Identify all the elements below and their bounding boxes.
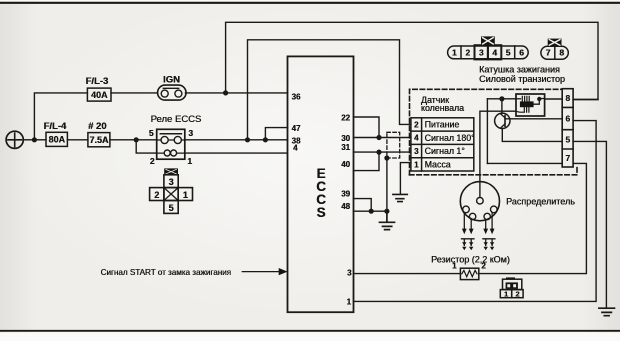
wire battery to 80A: [34, 139, 46, 141]
wire bus2 to sensor power pin 2: [248, 40, 411, 140]
svg-text:2: 2: [465, 48, 470, 58]
svg-text:Реле ECCS: Реле ECCS: [151, 114, 202, 125]
svg-text:3: 3: [188, 128, 193, 138]
connector C2 bottom: [500, 277, 523, 297]
wire ECCS pin 30 to sensor pin 4: [354, 137, 411, 139]
ECCS pin labels right: [341, 113, 352, 306]
svg-text:Питание: Питание: [425, 120, 460, 130]
svg-text:31: 31: [341, 143, 350, 152]
connector pill1 black tab: [481, 36, 495, 45]
svg-text:6: 6: [565, 114, 570, 124]
connector pill2 black tab: [548, 39, 562, 47]
svg-text:4: 4: [492, 48, 497, 58]
svg-text:36: 36: [292, 92, 301, 101]
svg-text:47: 47: [292, 124, 301, 133]
node coil right: [537, 97, 541, 101]
wire distributor outputs with arrows: [464, 213, 492, 229]
wire transistor emitter to pin 5: [502, 129, 562, 142]
svg-text:1: 1: [452, 262, 457, 271]
svg-text:7.5A: 7.5A: [89, 135, 109, 145]
svg-text:S: S: [316, 205, 325, 220]
wire coil right to pin 8: [545, 98, 563, 100]
svg-text:Катушка зажигания: Катушка зажигания: [479, 64, 560, 74]
svg-text:5: 5: [168, 203, 173, 213]
svg-text:1: 1: [187, 156, 192, 166]
svg-text:4: 4: [414, 134, 419, 143]
ground G1: [393, 194, 407, 201]
node ground junction: [384, 209, 389, 214]
ground G2: [380, 211, 395, 229]
svg-text:5: 5: [565, 134, 570, 144]
ignition switch IGN: [158, 85, 186, 100]
wire relay pin 1 to ECCS pin 4: [185, 152, 288, 154]
svg-text:Силовой транзистор: Силовой транзистор: [479, 74, 565, 84]
wire 80A to 7.5A: [67, 139, 88, 141]
svg-text:40: 40: [341, 160, 350, 169]
wire pin 7 left: [487, 162, 562, 164]
wire to relay coil pin 2: [136, 140, 157, 153]
connector strip pin labels: [565, 93, 570, 163]
wire resistor to ECCS pin 3: [354, 273, 461, 275]
svg-text:Сигнал 180°: Сигнал 180°: [425, 133, 475, 143]
svg-text:5: 5: [149, 128, 154, 138]
distributor: [460, 182, 499, 221]
fuse #20 7.5A: [88, 133, 110, 147]
wire bus1 to coil pin 8: [226, 22, 598, 99]
svg-text:1: 1: [183, 190, 188, 200]
svg-text:F/L-4: F/L-4: [44, 121, 67, 132]
node pin39 junction: [369, 209, 374, 214]
wire coil secondary to distributor: [480, 111, 516, 197]
wire shield to ground: [386, 158, 388, 211]
svg-text:1: 1: [452, 48, 457, 58]
wire 40A to IGN: [111, 92, 157, 94]
svg-text:2: 2: [481, 261, 486, 270]
node pin30 junction: [376, 135, 381, 140]
resistor R1 2.2 kOhm: [460, 268, 478, 279]
node pin47 tap: [263, 137, 268, 142]
ignition coil T1: [516, 94, 545, 116]
node pin31 junction: [376, 150, 381, 155]
connector shield dashed box: [387, 132, 400, 158]
svg-text:3: 3: [347, 269, 352, 278]
wire coil primary left: [487, 98, 516, 100]
svg-text:80A: 80A: [48, 135, 65, 145]
svg-text:# 20: # 20: [88, 121, 107, 132]
wire battery to junction: [23, 139, 34, 141]
label ECCS vertical: [316, 166, 326, 220]
svg-text:22: 22: [341, 113, 350, 122]
node shield tap: [384, 155, 389, 160]
wire up to F/L-3 branch: [34, 93, 87, 140]
connector X1 cross cells: [150, 175, 193, 214]
wire transistor base to pin 6: [510, 118, 562, 120]
svg-text:2: 2: [154, 190, 159, 200]
svg-text:коленвала: коленвала: [421, 103, 464, 113]
svg-text:Сигнал START от замка зажигани: Сигнал START от замка зажигания: [101, 268, 231, 277]
wire pin 6 right to ECCS pin 1: [354, 121, 597, 302]
ECCS pin labels left: [292, 92, 301, 152]
wire pin 7 right to resistor: [479, 163, 587, 273]
svg-text:2: 2: [515, 290, 519, 299]
node transistor collector tap: [499, 96, 504, 101]
battery: [6, 131, 23, 148]
wire ECCS pin 40: [354, 152, 380, 171]
svg-text:6: 6: [519, 48, 524, 58]
svg-text:7: 7: [546, 48, 551, 58]
svg-text:Резистор (2,2 кОм): Резистор (2,2 кОм): [431, 255, 510, 265]
border frame bottom: [0, 330, 620, 332]
connector X1 black tab: [164, 168, 178, 175]
node relay coil tap: [134, 137, 139, 142]
svg-text:Масса: Масса: [425, 160, 451, 170]
connector strip 8-6-5-7: [562, 89, 573, 167]
wire to ECCS pin 47: [265, 128, 287, 140]
fuse F/L-3 40A: [87, 88, 111, 101]
START signal arrow: [242, 268, 287, 275]
svg-text:1: 1: [414, 160, 419, 169]
pill1 numbers: [452, 48, 524, 58]
svg-text:F/L-3: F/L-3: [86, 76, 109, 87]
pill2 numbers: [546, 48, 565, 58]
relay ECCS K1: [157, 129, 185, 159]
wire ECCS pin 48: [354, 210, 387, 212]
node bus2 tap: [245, 137, 250, 142]
ground G3: [599, 308, 615, 316]
wire relay pin 3 to ECCS pin 38: [185, 139, 288, 141]
sensor pin numbers: [414, 120, 419, 169]
svg-text:2: 2: [150, 156, 155, 166]
wire IGN to ECCS pin 36: [185, 92, 287, 94]
node bus1 tap: [223, 90, 228, 95]
connector pill 7-8: [541, 46, 568, 59]
svg-text:Сигнал 1°: Сигнал 1°: [425, 146, 465, 156]
border frame top: [0, 2, 620, 4]
wire pin 5 right to ground: [573, 141, 606, 307]
wire coil left to pin 7: [486, 99, 488, 164]
svg-text:1: 1: [504, 290, 508, 299]
spark plugs: [462, 239, 495, 246]
svg-text:3: 3: [414, 147, 419, 156]
wire ECCS pin 31 to sensor pin 3: [354, 151, 411, 153]
svg-text:IGN: IGN: [163, 75, 180, 86]
node battery junction: [32, 137, 37, 142]
svg-text:5: 5: [506, 48, 511, 58]
svg-text:48: 48: [341, 202, 350, 211]
crankshaft sensor pin table: [411, 118, 474, 171]
crankshaft sensor dashed enclosure: [410, 89, 578, 175]
svg-text:7: 7: [565, 153, 570, 163]
wire pin 8 right: [573, 99, 598, 101]
wire 7.5A to relay contact: [110, 139, 157, 141]
svg-text:8: 8: [559, 48, 564, 58]
fuse F/L-4 80A: [46, 132, 67, 146]
svg-text:3: 3: [168, 177, 173, 187]
svg-text:3: 3: [479, 48, 484, 58]
svg-text:8: 8: [565, 93, 570, 103]
connector pill 1-6: [448, 45, 529, 59]
svg-text:4: 4: [293, 144, 298, 153]
transistor Q1: [495, 99, 510, 129]
svg-text:40A: 40A: [91, 90, 108, 100]
sensor row labels: [425, 120, 475, 170]
wire ECCS pin 39: [354, 199, 372, 212]
svg-text:1: 1: [347, 298, 352, 307]
op-amp ECCS control unit box: [288, 56, 354, 312]
svg-text:39: 39: [341, 190, 350, 199]
svg-text:30: 30: [341, 134, 350, 143]
wire sensor massa to ground: [400, 163, 411, 194]
wire ECCS pin 22: [354, 117, 380, 138]
svg-text:Распределитель: Распределитель: [506, 197, 575, 207]
svg-text:2: 2: [414, 120, 419, 129]
